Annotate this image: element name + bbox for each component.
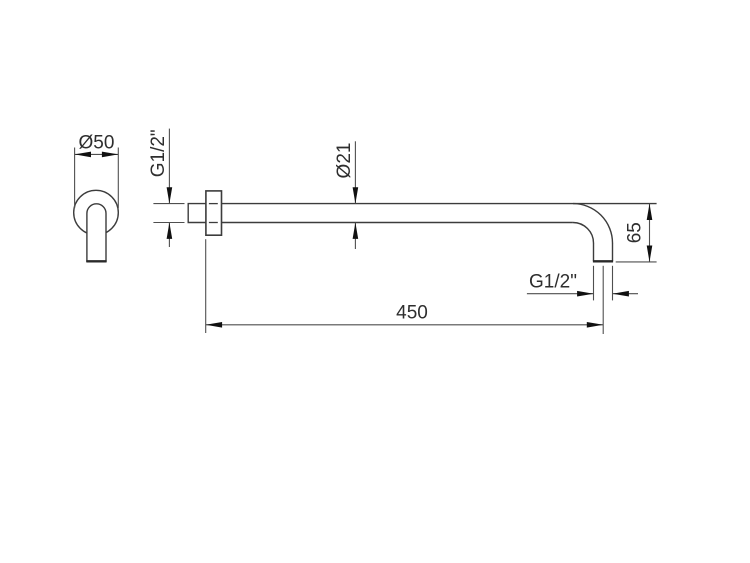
svg-text:G1/2": G1/2" [148,129,169,177]
wall flange circle (front view, Ø50) [74,190,119,235]
dimension G1/2 (wall thread) line upper [168,129,170,204]
dimension 450 extension line left (wall face) [205,239,207,333]
hidden tube dash upper inside flange [209,203,218,205]
svg-text:Ø21: Ø21 [334,143,355,179]
dimension G1/2 (outlet) extension line left [593,266,595,301]
dimension G1/2 (outlet) line left [527,293,594,295]
dimension Ø21 line upper [354,141,356,203]
svg-text:Ø50: Ø50 [79,133,115,154]
dimension G1/2 (wall thread) arrow upper [167,187,173,203]
svg-text:65: 65 [625,222,646,243]
dimension 65 line [649,204,651,262]
dimension Ø50 arrow right [102,152,118,158]
dimension 450 line [206,324,604,326]
outlet end face [593,260,613,262]
dimension G1/2 (outlet) arrow left [577,291,593,297]
dimension 65 extension line lower [616,261,657,263]
dimension 450 extension line right (outlet centerline) [602,266,604,334]
dimension 65 arrow upper [647,204,653,220]
dimension 65 arrow lower [647,246,653,262]
dimension Ø50 extension line left [74,148,76,209]
dimension 450 arrow right [587,322,603,328]
dimension G1/2 (outlet) line right [613,293,639,295]
outlet right side [612,243,614,261]
shower arm tube bottom outline [222,222,573,224]
dimension Ø21 arrow lower [353,223,359,239]
dimension G1/2 (wall thread) line lower [168,223,170,248]
dimension G1/2 (outlet) extension line right [612,266,614,301]
svg-text:450: 450 [396,302,428,323]
hidden tube dash lower inside flange [209,222,218,224]
dimension Ø50 extension line right [117,148,119,209]
svg-text:G1/2": G1/2" [529,272,577,293]
thread nipple G1/2 (wall side) [188,204,206,223]
bend inner arc [573,223,594,244]
shower arm tube top outline + 65 extension line [222,203,657,205]
dimension G1/2 (outlet) arrow right [613,291,629,297]
bend outer arc [573,204,613,244]
dimension Ø21 line lower [354,223,356,250]
dimension 450 arrow left [206,322,222,328]
dimension G1/2 (wall thread) extension line lower [153,222,184,224]
dimension Ø50 line [75,153,119,155]
dimension Ø50 arrow left [75,152,91,158]
front view outlet end face [86,260,106,262]
outlet left side [593,243,595,261]
down-turned arm end (front view tube over flange) [87,204,106,261]
dimension G1/2 (wall thread) extension line upper [153,203,184,205]
dimension Ø21 arrow upper [353,187,359,203]
dimension G1/2 (wall thread) arrow lower [167,223,173,239]
wall flange (side view rectangle) [206,191,222,235]
